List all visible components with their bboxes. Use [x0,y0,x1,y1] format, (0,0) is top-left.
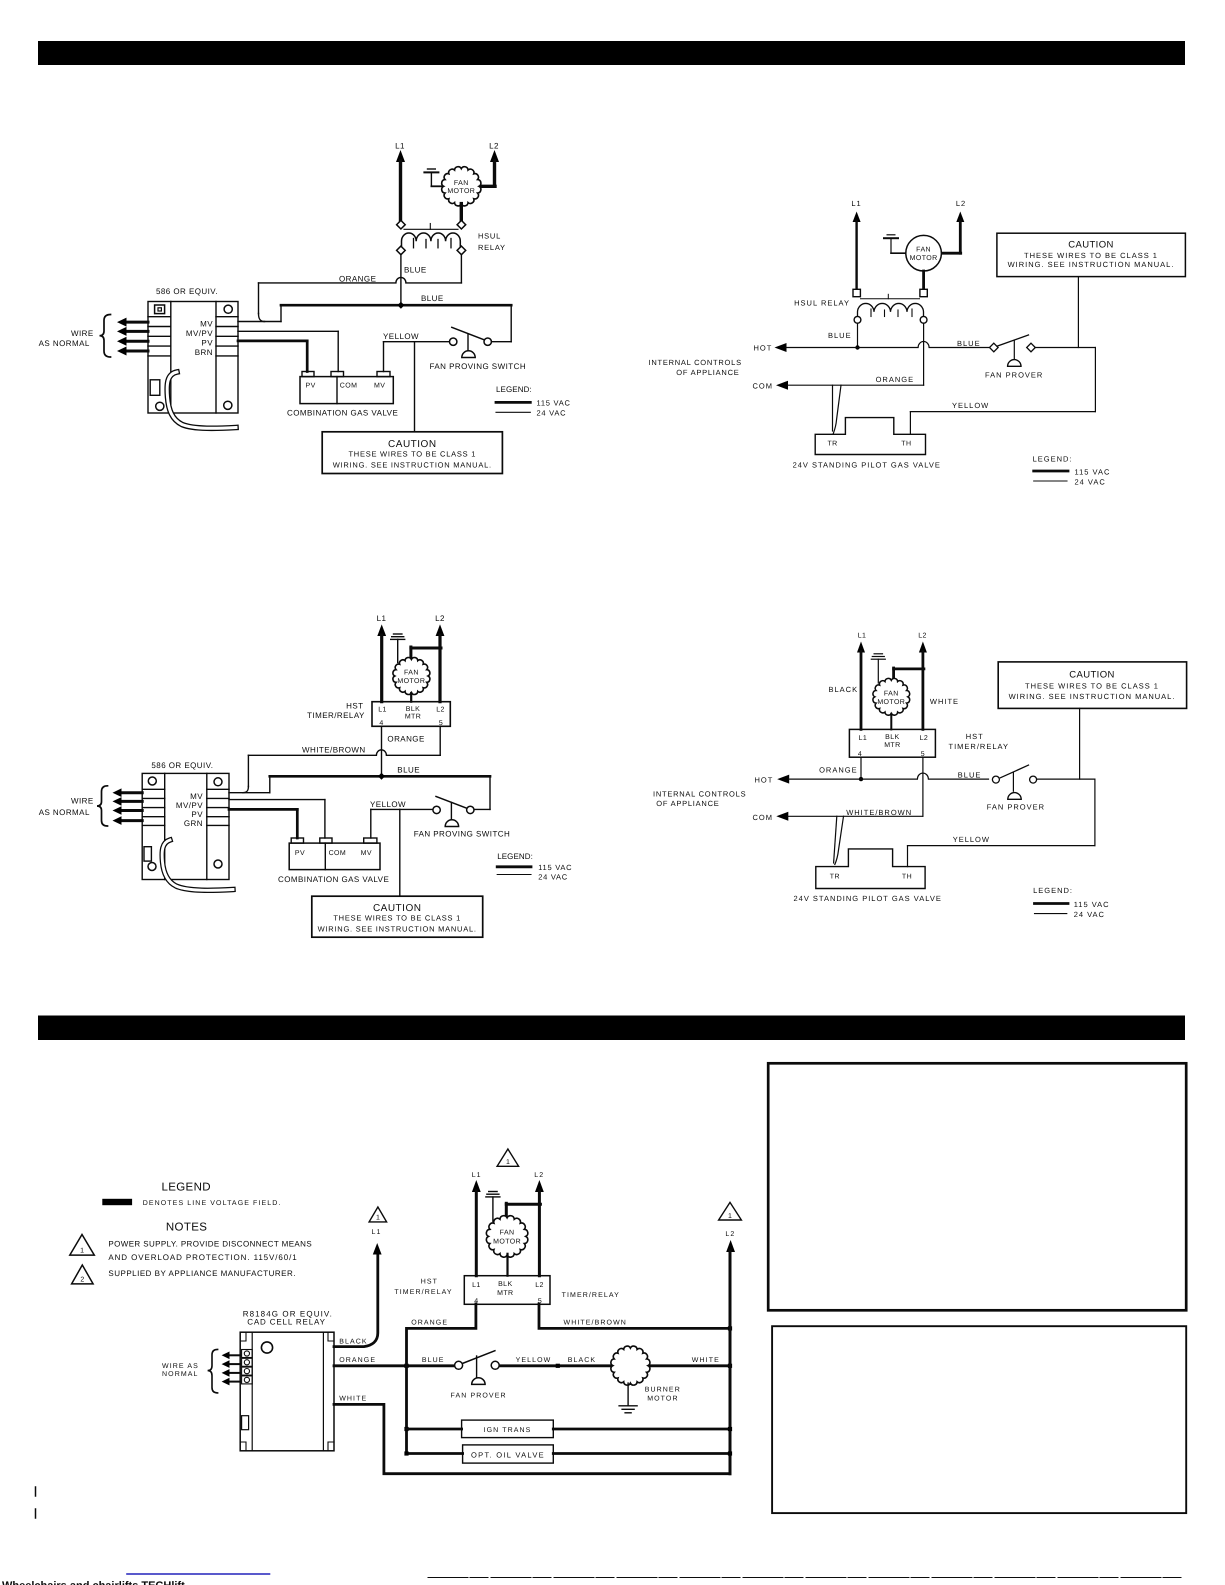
svg-text:WIRING. SEE INSTRUCTION MANUAL: WIRING. SEE INSTRUCTION MANUAL. [1009,692,1176,701]
svg-text:BLUE: BLUE [957,339,981,348]
svg-text:MTR: MTR [497,1290,513,1297]
svg-text:5: 5 [439,720,443,727]
svg-text:LEGEND:: LEGEND: [496,385,532,394]
svg-text:NORMAL: NORMAL [162,1371,199,1378]
svg-text:YELLOW: YELLOW [952,401,989,410]
svg-text:CAUTION: CAUTION [1069,670,1115,681]
svg-text:BLUE: BLUE [421,294,444,303]
svg-text:COM: COM [340,383,358,390]
svg-text:COM: COM [753,381,774,390]
svg-text:24 VAC: 24 VAC [1074,910,1105,919]
svg-text:SUPPLIED BY APPLIANCE MANUFACT: SUPPLIED BY APPLIANCE MANUFACTURER. [108,1269,296,1278]
svg-text:LEGEND:: LEGEND: [497,852,533,861]
svg-text:HOT: HOT [755,776,774,785]
svg-text:BLK: BLK [885,734,899,741]
svg-text:Wheelchairs and chairlifts TEC: Wheelchairs and chairlifts TECHlift [2,1580,185,1585]
svg-text:HSUL: HSUL [478,231,501,240]
svg-text:586 OR EQUIV.: 586 OR EQUIV. [151,761,213,770]
svg-text:L1: L1 [851,199,861,208]
svg-text:INTERNAL CONTROLS: INTERNAL CONTROLS [649,358,742,367]
svg-text:L2: L2 [535,1282,544,1289]
svg-text:24V STANDING PILOT GAS VALVE: 24V STANDING PILOT GAS VALVE [794,894,942,903]
svg-text:RELAY: RELAY [478,243,506,252]
svg-text:FAN PROVER: FAN PROVER [987,803,1045,812]
svg-text:115 VAC: 115 VAC [537,399,571,408]
svg-text:YELLOW: YELLOW [370,800,406,809]
svg-text:TR: TR [828,440,838,447]
svg-text:BLUE: BLUE [422,1357,445,1364]
svg-text:MTR: MTR [884,742,900,749]
svg-text:115 VAC: 115 VAC [1074,900,1110,909]
svg-text:POWER SUPPLY. PROVIDE DISCONNE: POWER SUPPLY. PROVIDE DISCONNECT MEANS [108,1239,312,1248]
svg-text:WIRING. SEE INSTRUCTION MANUAL: WIRING. SEE INSTRUCTION MANUAL. [1008,260,1175,269]
svg-text:FAN PROVING SWITCH: FAN PROVING SWITCH [414,830,511,839]
svg-text:BLK: BLK [498,1281,512,1288]
svg-text:BLUE: BLUE [828,331,852,340]
svg-text:FAN: FAN [916,247,931,254]
svg-text:L2: L2 [918,632,927,639]
svg-text:24 VAC: 24 VAC [538,873,568,882]
svg-text:L2: L2 [920,735,929,742]
svg-text:PV: PV [191,810,203,819]
svg-text:115 VAC: 115 VAC [1075,468,1111,477]
svg-text:WIRING. SEE INSTRUCTION MANUAL: WIRING. SEE INSTRUCTION MANUAL. [318,925,477,934]
svg-text:WIRING. SEE INSTRUCTION MANUAL: WIRING. SEE INSTRUCTION MANUAL. [333,461,492,470]
svg-text:PV: PV [306,383,316,390]
svg-text:FAN: FAN [404,670,419,677]
svg-text:L1: L1 [472,1172,482,1179]
svg-text:FAN PROVING SWITCH: FAN PROVING SWITCH [430,362,527,371]
svg-text:HOT: HOT [754,343,773,352]
svg-text:WIRE: WIRE [71,329,94,338]
svg-text:L1: L1 [372,1229,382,1236]
svg-text:24 VAC: 24 VAC [537,409,567,418]
svg-text:COMBINATION GAS VALVE: COMBINATION GAS VALVE [287,409,398,418]
svg-text:WHITE: WHITE [692,1357,720,1364]
svg-text:YELLOW: YELLOW [953,835,990,844]
svg-text:4: 4 [474,1298,478,1305]
svg-text:THESE WIRES TO BE CLASS 1: THESE WIRES TO BE CLASS 1 [348,450,476,459]
svg-text:24 VAC: 24 VAC [1075,478,1106,487]
svg-text:MV/PV: MV/PV [186,329,213,338]
svg-text:BLUE: BLUE [397,766,420,775]
svg-text:BLACK: BLACK [339,1338,367,1345]
svg-text:FAN PROVER: FAN PROVER [985,370,1043,379]
svg-text:24V STANDING PILOT GAS VALVE: 24V STANDING PILOT GAS VALVE [793,461,941,470]
svg-text:CAUTION: CAUTION [373,903,422,914]
svg-text:MV: MV [200,319,213,328]
svg-text:1: 1 [376,1215,380,1222]
svg-text:MOTOR: MOTOR [910,255,938,262]
svg-text:THESE WIRES TO BE CLASS 1: THESE WIRES TO BE CLASS 1 [1024,251,1158,260]
svg-text:MOTOR: MOTOR [647,1396,678,1403]
svg-text:DENOTES LINE VOLTAGE FIELD.: DENOTES LINE VOLTAGE FIELD. [143,1200,282,1207]
svg-text:OPT. OIL VALVE: OPT. OIL VALVE [471,1450,545,1459]
svg-text:ORANGE: ORANGE [876,375,915,384]
svg-text:FAN: FAN [454,180,469,187]
svg-text:LEGEND: LEGEND [162,1182,211,1194]
svg-text:YELLOW: YELLOW [516,1357,552,1364]
svg-text:BLUE: BLUE [404,266,427,275]
svg-text:COM: COM [329,850,347,857]
svg-text:L2: L2 [956,199,966,208]
svg-text:THESE WIRES TO BE CLASS 1: THESE WIRES TO BE CLASS 1 [1025,682,1159,691]
svg-text:LEGEND:: LEGEND: [1033,454,1073,463]
svg-text:BURNER: BURNER [645,1387,681,1394]
svg-text:WHITE: WHITE [930,697,959,706]
svg-text:WIRE: WIRE [71,797,94,806]
svg-text:WHITE/BROWN: WHITE/BROWN [302,746,366,755]
svg-text:INTERNAL CONTROLS: INTERNAL CONTROLS [653,790,746,799]
svg-text:GRN: GRN [184,819,203,828]
svg-text:MOTOR: MOTOR [877,699,905,706]
svg-text:OF APPLIANCE: OF APPLIANCE [656,799,719,808]
svg-text:HST: HST [421,1278,438,1285]
svg-text:AND OVERLOAD PROTECTION. 115V/: AND OVERLOAD PROTECTION. 115V/60/1 [108,1253,297,1262]
svg-text:BLACK: BLACK [829,685,859,694]
svg-text:L1: L1 [377,614,387,623]
svg-text:MTR: MTR [405,713,421,720]
svg-text:ORANGE: ORANGE [339,274,376,283]
svg-text:CAUTION: CAUTION [388,439,437,450]
svg-text:CAUTION: CAUTION [1068,240,1114,251]
svg-text:BRN: BRN [195,348,213,357]
svg-text:FAN: FAN [500,1229,515,1236]
svg-text:L2: L2 [436,706,445,713]
svg-text:ORANGE: ORANGE [411,1320,448,1327]
svg-text:HST: HST [346,702,363,711]
svg-text:5: 5 [538,1298,542,1305]
svg-text:HSUL RELAY: HSUL RELAY [794,299,850,308]
svg-text:WHITE: WHITE [339,1396,367,1403]
svg-text:ORANGE: ORANGE [387,734,424,743]
svg-text:L1: L1 [858,632,867,639]
svg-text:L2: L2 [435,614,445,623]
svg-text:L1: L1 [378,706,387,713]
svg-text:L1: L1 [859,735,868,742]
svg-text:2: 2 [80,1276,84,1283]
svg-text:THESE WIRES TO BE CLASS 1: THESE WIRES TO BE CLASS 1 [333,914,461,923]
svg-text:IGN TRANS: IGN TRANS [484,1427,532,1434]
svg-text:CAD CELL RELAY: CAD CELL RELAY [247,1317,326,1326]
svg-text:TIMER/RELAY: TIMER/RELAY [949,742,1009,751]
svg-text:PV: PV [201,338,213,347]
svg-text:NOTES: NOTES [166,1222,207,1234]
svg-text:PV: PV [295,850,305,857]
svg-text:L2: L2 [534,1172,544,1179]
svg-text:AS NORMAL: AS NORMAL [39,339,90,348]
svg-text:1: 1 [506,1159,510,1166]
svg-text:L1: L1 [472,1282,481,1289]
svg-text:BLUE: BLUE [958,771,982,780]
svg-text:TH: TH [902,874,912,881]
svg-text:ORANGE: ORANGE [819,765,858,774]
svg-text:L1: L1 [395,142,405,151]
svg-text:MOTOR: MOTOR [493,1238,521,1245]
svg-text:WHITE/BROWN: WHITE/BROWN [564,1319,627,1327]
svg-text:AS NORMAL: AS NORMAL [39,808,90,817]
svg-text:OF APPLIANCE: OF APPLIANCE [676,368,739,377]
svg-text:MV: MV [190,792,203,801]
svg-text:586 OR EQUIV.: 586 OR EQUIV. [156,287,218,296]
svg-text:1: 1 [80,1247,84,1254]
svg-text:COMBINATION GAS VALVE: COMBINATION GAS VALVE [278,875,389,884]
svg-text:MV/PV: MV/PV [176,801,203,810]
svg-text:FAN PROVER: FAN PROVER [451,1393,507,1400]
svg-text:TR: TR [830,874,840,881]
svg-text:BLK: BLK [406,706,420,713]
svg-text:FAN: FAN [884,690,899,697]
svg-text:TIMER/RELAY: TIMER/RELAY [562,1291,620,1299]
svg-text:MOTOR: MOTOR [447,188,475,195]
svg-text:WIRE AS: WIRE AS [162,1363,199,1370]
svg-text:MOTOR: MOTOR [397,678,425,685]
svg-text:MV: MV [374,383,385,390]
svg-text:ORANGE: ORANGE [339,1357,376,1364]
svg-text:TIMER/RELAY: TIMER/RELAY [307,711,365,720]
svg-text:BLACK: BLACK [568,1357,596,1364]
svg-text:YELLOW: YELLOW [383,332,419,341]
svg-text:TH: TH [901,440,911,447]
svg-text:LEGEND:: LEGEND: [1033,886,1073,895]
svg-text:L2: L2 [725,1231,735,1238]
svg-text:TIMER/RELAY: TIMER/RELAY [394,1288,452,1296]
svg-text:L2: L2 [489,142,499,151]
svg-text:MV: MV [361,850,372,857]
svg-text:COM: COM [753,813,774,822]
svg-text:HST: HST [966,732,984,741]
svg-text:1: 1 [728,1213,732,1220]
svg-text:115 VAC: 115 VAC [538,863,572,872]
